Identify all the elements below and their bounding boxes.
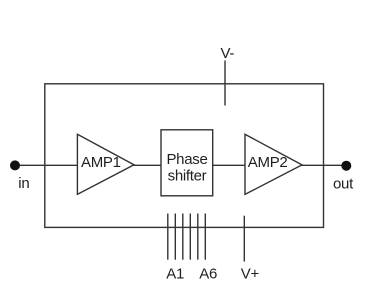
svg-text:Phase: Phase (166, 151, 207, 168)
svg-text:shifter: shifter (168, 167, 207, 184)
svg-text:A6: A6 (199, 265, 217, 282)
svg-text:V-: V- (221, 45, 235, 62)
svg-text:V+: V+ (241, 265, 260, 282)
svg-text:AMP1: AMP1 (81, 154, 121, 171)
svg-text:AMP2: AMP2 (248, 154, 288, 171)
svg-text:out: out (333, 175, 354, 192)
svg-text:in: in (18, 175, 29, 192)
svg-text:A1: A1 (166, 265, 184, 282)
